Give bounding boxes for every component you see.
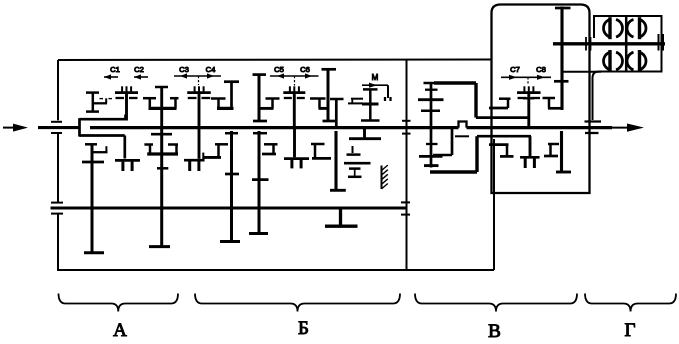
svg-text:С7: С7	[510, 65, 520, 74]
svg-text:С3: С3	[179, 65, 189, 74]
svg-text:С4: С4	[206, 65, 217, 74]
svg-text:Б: Б	[298, 318, 309, 339]
svg-text:М: М	[372, 73, 379, 82]
svg-text:С6: С6	[300, 65, 310, 74]
svg-text:А: А	[113, 320, 127, 339]
svg-text:В: В	[488, 321, 501, 339]
svg-text:С2: С2	[134, 65, 144, 74]
svg-text:Г: Г	[625, 320, 636, 339]
svg-text:С1: С1	[110, 65, 120, 74]
svg-text:С8: С8	[536, 65, 546, 74]
svg-text:С5: С5	[274, 65, 284, 74]
